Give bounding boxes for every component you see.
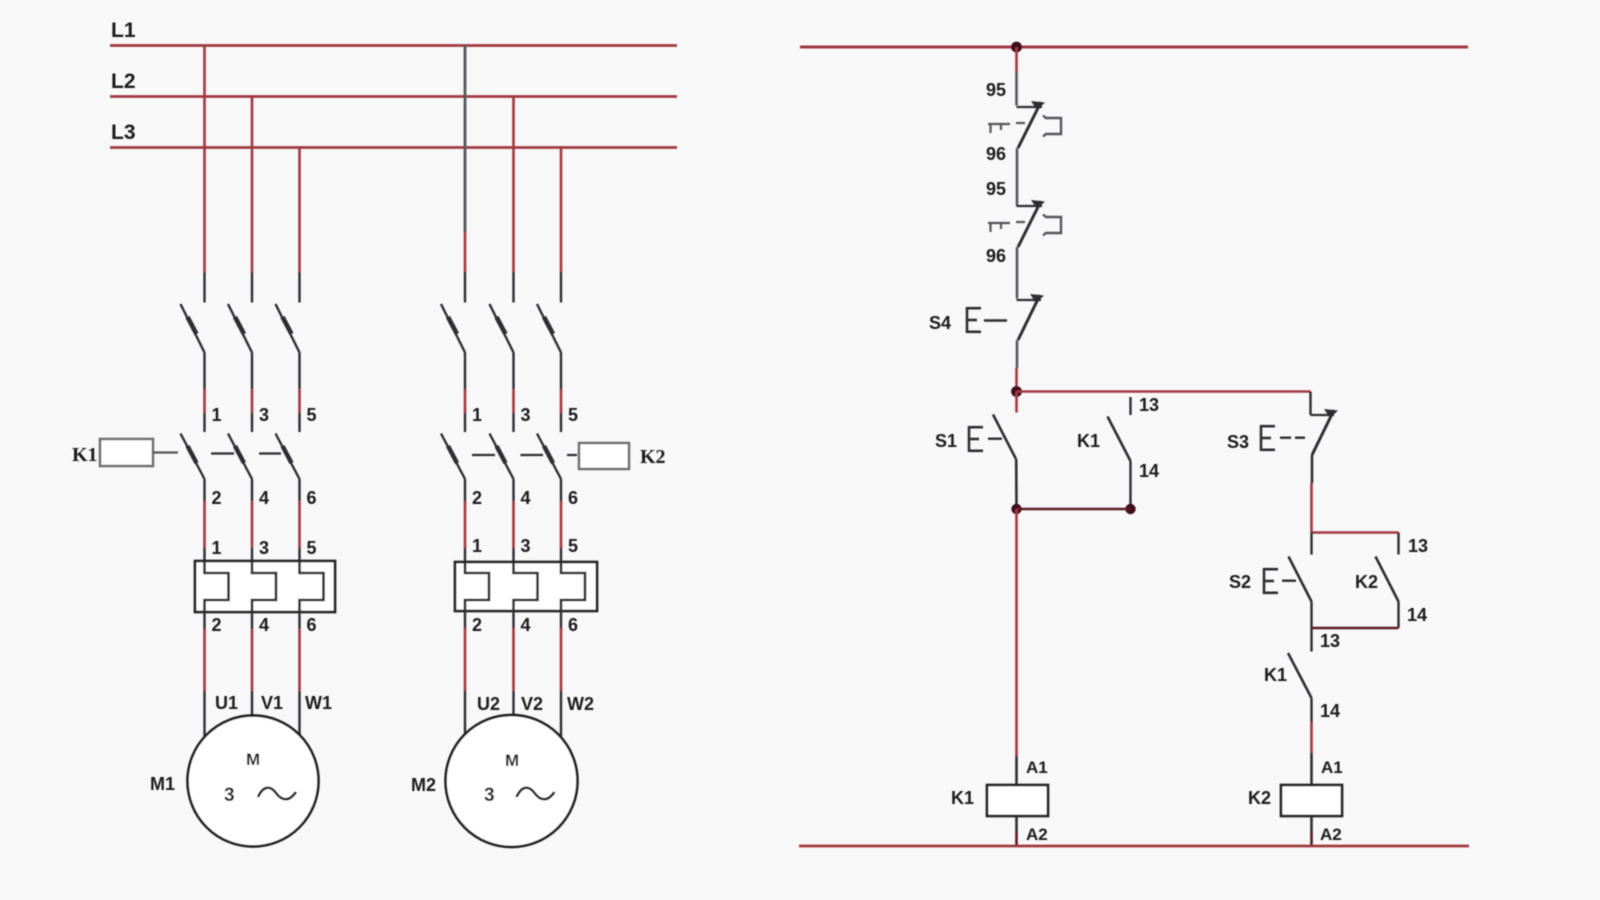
svg-text:2: 2 xyxy=(472,488,482,508)
svg-text:M: M xyxy=(246,750,260,769)
svg-text:5: 5 xyxy=(307,538,317,558)
svg-text:1: 1 xyxy=(472,405,482,425)
svg-text:4: 4 xyxy=(521,615,531,635)
svg-text:L2: L2 xyxy=(111,70,136,93)
svg-text:M2: M2 xyxy=(411,775,436,795)
svg-text:S2: S2 xyxy=(1229,572,1251,592)
svg-text:13: 13 xyxy=(1320,631,1340,651)
svg-text:14: 14 xyxy=(1407,605,1427,625)
svg-text:S3: S3 xyxy=(1227,432,1249,452)
svg-text:L1: L1 xyxy=(111,19,136,42)
svg-text:U2: U2 xyxy=(477,694,500,714)
svg-text:M: M xyxy=(505,751,519,770)
svg-text:M1: M1 xyxy=(150,774,175,794)
svg-text:A1: A1 xyxy=(1321,758,1343,777)
svg-text:K2: K2 xyxy=(1355,572,1378,592)
svg-text:6: 6 xyxy=(307,615,317,635)
svg-text:6: 6 xyxy=(568,615,578,635)
svg-text:1: 1 xyxy=(212,405,222,425)
svg-text:K1: K1 xyxy=(1077,431,1100,451)
svg-text:2: 2 xyxy=(472,615,482,635)
svg-text:5: 5 xyxy=(307,405,317,425)
svg-text:5: 5 xyxy=(568,536,578,556)
svg-text:S4: S4 xyxy=(929,313,951,333)
svg-text:A2: A2 xyxy=(1320,825,1342,844)
svg-text:14: 14 xyxy=(1139,461,1159,481)
svg-text:3: 3 xyxy=(484,785,495,806)
svg-text:U1: U1 xyxy=(215,693,238,713)
svg-text:V2: V2 xyxy=(521,694,543,714)
svg-text:3: 3 xyxy=(259,538,269,558)
svg-text:2: 2 xyxy=(212,615,222,635)
svg-text:5: 5 xyxy=(568,405,578,425)
svg-text:1: 1 xyxy=(212,538,222,558)
svg-text:K2: K2 xyxy=(1248,788,1271,808)
svg-text:6: 6 xyxy=(568,488,578,508)
svg-text:L3: L3 xyxy=(111,121,136,144)
svg-text:96: 96 xyxy=(986,144,1006,164)
svg-text:95: 95 xyxy=(986,179,1006,199)
svg-text:W1: W1 xyxy=(305,693,332,713)
svg-text:14: 14 xyxy=(1320,701,1340,721)
svg-text:K1: K1 xyxy=(1264,665,1287,685)
svg-text:W2: W2 xyxy=(567,694,594,714)
svg-text:A1: A1 xyxy=(1026,758,1048,777)
svg-text:4: 4 xyxy=(259,615,269,635)
svg-text:3: 3 xyxy=(521,536,531,556)
svg-text:3: 3 xyxy=(224,785,235,806)
svg-text:2: 2 xyxy=(212,488,222,508)
svg-text:K1: K1 xyxy=(951,788,974,808)
svg-text:3: 3 xyxy=(521,405,531,425)
svg-text:4: 4 xyxy=(521,488,531,508)
svg-text:K1: K1 xyxy=(72,444,98,466)
svg-text:13: 13 xyxy=(1408,536,1428,556)
svg-text:6: 6 xyxy=(307,488,317,508)
svg-text:3: 3 xyxy=(259,405,269,425)
svg-text:4: 4 xyxy=(259,488,269,508)
svg-text:V1: V1 xyxy=(261,693,283,713)
svg-text:1: 1 xyxy=(472,536,482,556)
svg-text:13: 13 xyxy=(1139,395,1159,415)
svg-text:A2: A2 xyxy=(1026,825,1048,844)
svg-text:S1: S1 xyxy=(935,431,957,451)
svg-text:96: 96 xyxy=(986,246,1006,266)
svg-text:K2: K2 xyxy=(640,446,666,468)
svg-text:95: 95 xyxy=(986,80,1006,100)
